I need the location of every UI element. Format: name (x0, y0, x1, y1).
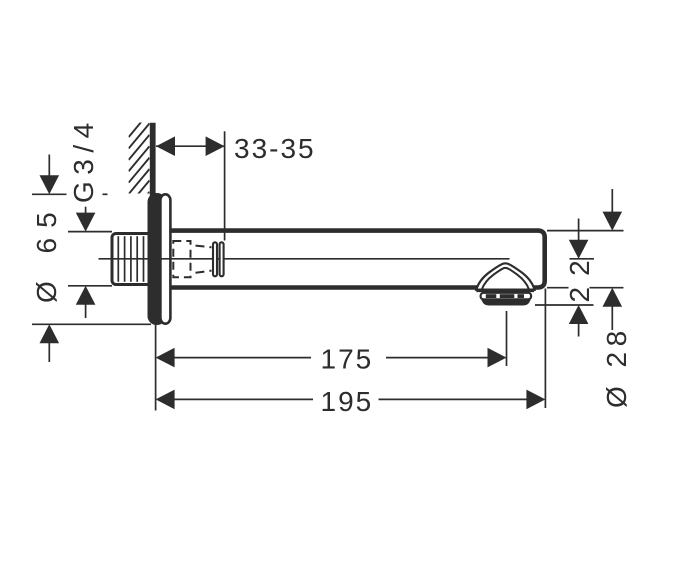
svg-text:175: 175 (321, 343, 374, 374)
svg-text:195: 195 (321, 386, 374, 417)
svg-text:Ø 28: Ø 28 (601, 325, 632, 408)
svg-text:33-35: 33-35 (234, 133, 316, 164)
svg-text:G3/4: G3/4 (68, 116, 99, 203)
svg-text:Ø 65: Ø 65 (31, 202, 62, 303)
svg-text:22: 22 (564, 249, 595, 302)
